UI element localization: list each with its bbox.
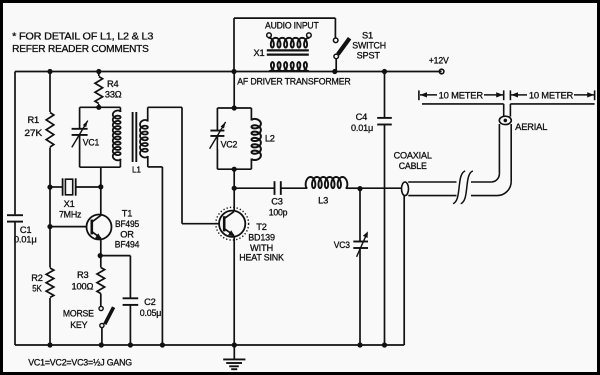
svg-text:AUDIO INPUT: AUDIO INPUT bbox=[265, 20, 319, 30]
svg-text:10 METER: 10 METER bbox=[439, 91, 484, 101]
svg-text:33Ω: 33Ω bbox=[105, 90, 122, 100]
svg-text:BD139: BD139 bbox=[248, 232, 275, 242]
svg-text:SWITCH: SWITCH bbox=[352, 41, 386, 51]
svg-text:T2: T2 bbox=[256, 222, 266, 232]
svg-text:WITH: WITH bbox=[250, 243, 273, 253]
svg-text:+12V: +12V bbox=[429, 56, 450, 66]
svg-text:VC2: VC2 bbox=[221, 140, 238, 150]
svg-text:X1: X1 bbox=[254, 48, 265, 58]
svg-text:L1: L1 bbox=[132, 166, 141, 175]
svg-text:BF495: BF495 bbox=[115, 219, 139, 229]
svg-text:VC3: VC3 bbox=[334, 240, 350, 250]
svg-text:SPST: SPST bbox=[357, 51, 381, 61]
svg-text:VC1: VC1 bbox=[83, 137, 99, 147]
svg-text:L2: L2 bbox=[265, 133, 275, 143]
svg-text:100p: 100p bbox=[269, 208, 288, 218]
svg-text:0.01μ: 0.01μ bbox=[351, 123, 373, 133]
svg-text:AERIAL: AERIAL bbox=[515, 122, 547, 132]
svg-text:HEAT SINK: HEAT SINK bbox=[239, 253, 284, 263]
svg-text:0.05μ: 0.05μ bbox=[140, 308, 162, 318]
svg-text:C4: C4 bbox=[356, 112, 368, 122]
svg-text:C3: C3 bbox=[271, 197, 283, 207]
svg-text:L3: L3 bbox=[318, 196, 328, 206]
svg-text:10 METER: 10 METER bbox=[529, 91, 574, 101]
svg-text:S1: S1 bbox=[362, 31, 373, 41]
svg-text:27K: 27K bbox=[24, 128, 43, 138]
svg-text:7MHz: 7MHz bbox=[59, 209, 82, 219]
svg-text:5K: 5K bbox=[32, 284, 42, 294]
svg-text:KEY: KEY bbox=[70, 320, 87, 330]
svg-text:CABLE: CABLE bbox=[399, 161, 427, 171]
svg-text:VC1=VC2=VC3=½J GANG: VC1=VC2=VC3=½J GANG bbox=[28, 358, 132, 369]
svg-text:C2: C2 bbox=[144, 297, 156, 307]
svg-text:BF494: BF494 bbox=[115, 240, 139, 250]
svg-text:REFER READER COMMENTS: REFER READER COMMENTS bbox=[12, 44, 149, 55]
svg-text:MORSE: MORSE bbox=[63, 309, 94, 319]
svg-text:COAXIAL: COAXIAL bbox=[394, 150, 432, 160]
svg-text:* FOR DETAIL OF L1, L2 & L3: * FOR DETAIL OF L1, L2 & L3 bbox=[12, 31, 154, 42]
svg-text:R4: R4 bbox=[107, 79, 119, 89]
svg-text:0.01μ: 0.01μ bbox=[14, 235, 37, 245]
svg-text:OR: OR bbox=[120, 229, 134, 239]
svg-text:R3: R3 bbox=[77, 270, 89, 280]
svg-text:T1: T1 bbox=[122, 209, 132, 219]
svg-text:100Ω: 100Ω bbox=[72, 281, 94, 291]
svg-text:R1: R1 bbox=[27, 115, 39, 125]
svg-text:X1: X1 bbox=[64, 199, 75, 209]
svg-text:AF DRIVER TRANSFORMER: AF DRIVER TRANSFORMER bbox=[237, 77, 351, 87]
svg-text:C1: C1 bbox=[20, 225, 32, 235]
svg-text:R2: R2 bbox=[31, 273, 43, 283]
